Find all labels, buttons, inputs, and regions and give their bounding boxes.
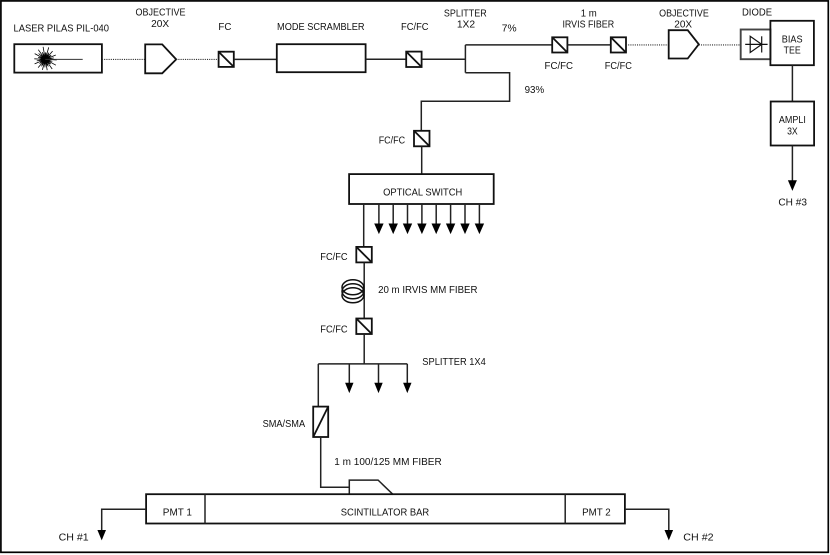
svg-text:1X2: 1X2 (457, 20, 476, 31)
splitter 1X4 bar (318, 363, 407, 365)
wire bias tee to ampli (791, 65, 793, 101)
splitter 1X4 output arrow a (345, 364, 353, 393)
PMT1 divider (204, 494, 206, 523)
wire FC/FC to splitter 1X2 (422, 58, 466, 60)
splitter 1X2 fork bar (464, 45, 466, 73)
svg-text:SPLITTER: SPLITTER (444, 9, 487, 20)
arrowhead CH2 (665, 530, 674, 540)
objective lens 1 pentagon (145, 44, 176, 73)
svg-text:PMT 2: PMT 2 (582, 507, 611, 518)
svg-text:FC/FC: FC/FC (605, 61, 632, 72)
switch output arrow 6 (432, 204, 441, 234)
wire through fiber coil (363, 262, 365, 318)
diode symbol (745, 36, 767, 52)
svg-text:FC/FC: FC/FC (320, 324, 347, 335)
svg-text:OBJECTIVE: OBJECTIVE (659, 9, 709, 20)
SMA/SMA connector box (313, 407, 328, 437)
svg-text:7%: 7% (502, 23, 517, 34)
svg-text:SMA/SMA: SMA/SMA (263, 419, 306, 430)
svg-text:20 m IRVIS MM FIBER: 20 m IRVIS MM FIBER (378, 285, 477, 296)
wire splitter 1X4 to SMA/SMA (317, 364, 319, 407)
svg-text:FC/FC: FC/FC (320, 252, 347, 263)
FC/FC connector box 7pct right (611, 37, 626, 52)
FC/FC connector box on 93pct line (414, 131, 430, 147)
wire FC/FC to splitter 1X4 (363, 334, 365, 364)
svg-text:CH #2: CH #2 (683, 533, 714, 544)
laser beam line inside box (45, 58, 82, 60)
mode scrambler box (277, 44, 366, 72)
wire FC/FC to optical switch (421, 146, 423, 174)
svg-text:FC/FC: FC/FC (545, 61, 574, 72)
splitter 1X4 output arrow b (374, 364, 382, 393)
svg-text:SCINTILLATOR BAR: SCINTILLATOR BAR (341, 507, 429, 518)
FC/FC connector box above coil (356, 247, 372, 263)
fiber coil 20 m (342, 280, 364, 303)
diode box (741, 30, 771, 60)
splitter 1X4 output arrow c (403, 364, 411, 393)
arrowhead CH3 (788, 180, 797, 191)
svg-text:PMT 1: PMT 1 (163, 507, 193, 518)
svg-text:MODE SCRAMBLER: MODE SCRAMBLER (277, 22, 365, 33)
dotted beam laser to objective 1 (102, 58, 145, 60)
svg-text:LASER PILAS PIL-040: LASER PILAS PIL-040 (14, 23, 110, 34)
FC/FC connector box below coil (356, 319, 372, 335)
laser starburst emission symbol (34, 47, 56, 70)
wire FC to mode scrambler (234, 58, 277, 60)
laser PILAS PIL-040 box (14, 44, 102, 72)
svg-text:SPLITTER 1X4: SPLITTER 1X4 (422, 357, 486, 368)
switch output arrow 3 (389, 204, 398, 234)
svg-text:20X: 20X (151, 19, 169, 30)
bias tee box (770, 21, 814, 65)
wire splitter 7 percent branch (465, 44, 552, 46)
wire SMA/SMA to scintillator input (321, 437, 350, 487)
svg-text:FC/FC: FC/FC (401, 22, 429, 33)
wire PMT2 to CH2 arrow (625, 509, 669, 535)
arrowhead CH1 (97, 530, 106, 540)
svg-text:AMPLI: AMPLI (779, 115, 806, 126)
wire splitter 93 percent branch (421, 73, 509, 131)
svg-text:BIAS: BIAS (782, 35, 803, 46)
objective lens 2 pentagon (669, 30, 699, 58)
svg-text:TEE: TEE (784, 46, 801, 57)
svg-text:1 m 100/125 MM FIBER: 1 m 100/125 MM FIBER (334, 457, 441, 468)
FC/FC connector box 7pct left (552, 37, 567, 52)
wire 1m irvis fiber (567, 44, 610, 46)
wire switch output 1 used (363, 204, 365, 247)
svg-text:OPTICAL SWITCH: OPTICAL SWITCH (383, 187, 462, 198)
switch output arrow 4 (403, 204, 412, 234)
ampli 3X box (771, 102, 814, 146)
dotted beam objective 2 to diode (699, 44, 741, 46)
wire ampli to CH3 arrow (791, 146, 793, 187)
svg-text:93%: 93% (525, 85, 545, 96)
PMT2 divider (564, 494, 566, 523)
switch output arrow 7 (446, 204, 455, 234)
svg-text:1 m: 1 m (581, 9, 597, 20)
svg-text:FC: FC (218, 22, 231, 33)
svg-text:20X: 20X (674, 19, 692, 30)
svg-text:DIODE: DIODE (742, 8, 772, 19)
FC/FC connector box before splitter (406, 52, 421, 67)
switch output arrow 2 (374, 204, 383, 234)
switch output arrow 5 (417, 204, 426, 234)
wire PMT1 to CH1 arrow (102, 509, 146, 535)
wire mode scrambler to FC/FC (366, 58, 407, 60)
scintillator bar box (146, 494, 625, 523)
switch output arrow 9 (475, 204, 484, 234)
svg-text:CH #1: CH #1 (59, 532, 90, 543)
dotted beam objective 1 to FC (176, 58, 218, 60)
switch output arrow 8 (460, 204, 469, 234)
svg-text:CH #3: CH #3 (778, 197, 807, 208)
svg-text:OBJECTIVE: OBJECTIVE (136, 8, 186, 19)
fiber input wedge on scintillator bar (349, 480, 393, 495)
optical switch box (349, 174, 494, 204)
svg-text:FC/FC: FC/FC (379, 136, 406, 147)
svg-text:3X: 3X (787, 127, 798, 138)
dotted beam FC/FC to objective 2 (626, 44, 669, 46)
svg-text:IRVIS FIBER: IRVIS FIBER (562, 19, 614, 30)
FC connector box (219, 52, 234, 67)
